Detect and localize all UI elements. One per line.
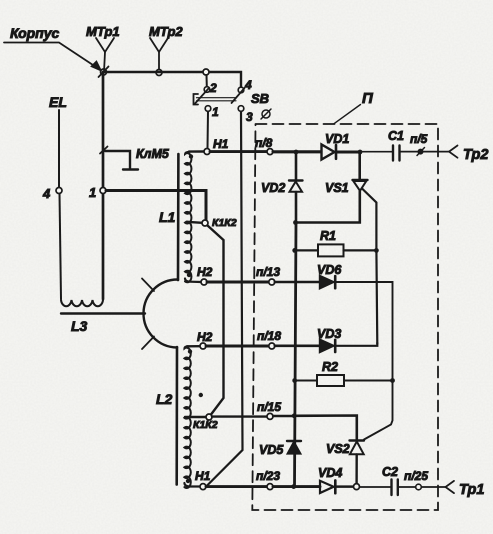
inductor L1 winding — [185, 152, 191, 283]
junction dot — [294, 150, 299, 155]
node Н2 L1 circle — [201, 279, 207, 285]
arc tick bottom — [142, 337, 154, 350]
wire to C1 — [360, 151, 392, 153]
VS1 gate wire — [362, 189, 376, 249]
node п/18 circle — [269, 343, 275, 349]
capacitor C2 — [392, 480, 398, 496]
node К1К2 L2 circle — [206, 414, 212, 420]
wire Н1 L2 row (п/23) — [206, 485, 267, 488]
wire EL — [58, 110, 60, 188]
SB contact 4 — [238, 87, 244, 93]
node Н1 L1 circle — [204, 149, 210, 155]
svg-text:VD5: VD5 — [259, 443, 284, 457]
L2 tap wire — [185, 416, 206, 418]
wire node1 to L1 tap — [106, 191, 206, 220]
svg-text:SB: SB — [251, 91, 269, 106]
svg-text:1: 1 — [89, 185, 96, 200]
diode VD3 — [320, 340, 334, 353]
thyristor VS2 — [350, 439, 365, 441]
wire SB1 to H1 — [207, 112, 210, 149]
svg-text:п/25: п/25 — [404, 469, 428, 483]
wire п/8 to VD1 — [273, 150, 321, 153]
svg-text:1: 1 — [212, 105, 219, 119]
svg-text:VD1: VD1 — [325, 132, 349, 146]
node Н1 L2 circle — [200, 484, 206, 490]
thyristor VS1 — [358, 154, 361, 179]
svg-text:п/5: п/5 — [410, 132, 428, 146]
wire Н2 L2 row (п/18) — [206, 345, 269, 348]
node п/25 circle — [416, 484, 422, 490]
contact КлМ5 branch — [105, 151, 138, 170]
polarity dot L2 top — [188, 349, 192, 353]
SB link bars — [197, 98, 237, 101]
node circle after VD4 — [354, 484, 360, 490]
wire п/13 to VD6 — [275, 281, 320, 284]
svg-text:R1: R1 — [320, 229, 336, 243]
svg-text:4: 4 — [244, 78, 252, 92]
svg-text:Н2: Н2 — [197, 265, 213, 279]
VS2 gate wire — [364, 381, 393, 440]
capacitor C1 — [393, 146, 400, 161]
node п/5 — [418, 149, 423, 154]
wire Н1 row — [210, 150, 267, 153]
svg-text:Тр1: Тр1 — [459, 482, 484, 498]
МТр1 arrow — [96, 38, 114, 52]
junction dot п/15 — [292, 413, 297, 418]
resistor R1 — [295, 249, 319, 251]
node 4 circle — [56, 188, 62, 194]
L2 bottom lead — [184, 483, 200, 487]
svg-text:п/13: п/13 — [256, 265, 280, 279]
svg-text:L2: L2 — [156, 391, 173, 407]
wire to C2 — [360, 486, 392, 488]
svg-text:VD6: VD6 — [317, 263, 342, 277]
svg-text:п/23: п/23 — [256, 469, 280, 483]
svg-text:Корпус: Корпус — [10, 25, 60, 41]
terminal Тр1 arrow — [446, 481, 455, 493]
diode VD6 — [320, 276, 334, 289]
arc tick top — [142, 279, 154, 292]
svg-text:EL: EL — [49, 94, 67, 110]
wire R1 right down — [375, 250, 378, 343]
dashed box П — [252, 124, 438, 510]
L1 bottom lead — [185, 279, 201, 283]
wire L3 to arc — [61, 312, 145, 314]
junction dot R1 left — [292, 248, 297, 253]
diode VD4 — [320, 481, 334, 493]
svg-text:К1К2: К1К2 — [212, 217, 237, 229]
junction dot — [358, 150, 363, 155]
wire VD4 to VS2 node — [335, 485, 353, 488]
wire п/23 to VD4 — [273, 485, 320, 488]
node МТр2 circle — [156, 70, 162, 76]
terminal Тр2 arrow — [449, 146, 458, 158]
svg-text:К1К2: К1К2 — [193, 419, 218, 431]
diode VD2 — [295, 154, 298, 179]
junction dot R2 left — [292, 378, 297, 383]
inductor L2 core — [175, 347, 178, 485]
node п/15 circle — [267, 413, 273, 419]
wire bus vertical — [295, 223, 297, 487]
contact КлМ5 slash — [100, 147, 108, 154]
SB armature right — [232, 88, 245, 103]
polarity dot L2 middle — [199, 393, 203, 397]
wire C2 to Тр1 — [398, 486, 446, 488]
node п/13 circle — [269, 279, 275, 285]
Корпус callout arrow — [4, 43, 96, 68]
svg-text:2: 2 — [209, 81, 217, 95]
inductor L1 core — [177, 154, 180, 280]
resistor R2 — [295, 380, 317, 382]
L1 top lead — [189, 150, 204, 153]
svg-text:VD3: VD3 — [317, 327, 341, 341]
svg-text:КлМ5: КлМ5 — [136, 147, 170, 161]
node К1К2 L1 circle — [202, 220, 208, 226]
svg-text:C2: C2 — [382, 465, 398, 479]
svg-text:Тр2: Тр2 — [463, 147, 488, 163]
wire К1К2 L2 row (п/15) — [212, 415, 267, 417]
inductor L2 winding — [184, 346, 190, 488]
wire EL lower — [60, 194, 62, 300]
SB actuator bracket — [194, 94, 199, 105]
L2 top lead — [187, 345, 200, 347]
node SB top circle — [203, 69, 209, 75]
МТр2 arrow — [150, 38, 168, 52]
inductor L3 — [61, 300, 103, 306]
svg-text:VS1: VS1 — [325, 181, 349, 195]
SB contact 2 — [204, 87, 210, 93]
svg-text:R2: R2 — [322, 360, 338, 374]
wire left vertical from chassis — [102, 72, 105, 188]
switch SB — [206, 75, 208, 87]
wire п/15 to VS2 — [273, 415, 294, 417]
svg-text:VD4: VD4 — [318, 466, 342, 480]
wire К1К2 link — [208, 226, 224, 415]
svg-text:3: 3 — [246, 110, 253, 124]
junction dot — [293, 220, 298, 225]
junction dot R1 right — [374, 248, 379, 253]
svg-text:П: П — [362, 90, 374, 107]
wire C1 to Тр2 — [400, 151, 450, 153]
svg-text:МТр1: МТр1 — [86, 24, 120, 39]
polarity dot L2 bottom — [186, 479, 190, 483]
П callout — [334, 105, 361, 124]
SB armature left — [195, 89, 209, 104]
L1 tap wire — [187, 222, 203, 223]
svg-text:п/15: п/15 — [257, 400, 281, 414]
wire SB3 down — [206, 112, 243, 487]
SB contact 1 — [205, 106, 211, 112]
wire VD1 to VS1 node — [336, 151, 360, 154]
svg-text:п/8: п/8 — [255, 136, 273, 150]
svg-text:VS2: VS2 — [326, 442, 350, 456]
svg-text:4: 4 — [42, 186, 51, 201]
junction dot п/23 — [291, 484, 296, 489]
svg-text:L3: L3 — [71, 318, 88, 334]
node 1 circle — [100, 188, 106, 194]
node Н2 L2 circle — [200, 343, 206, 349]
svg-text:п/18: п/18 — [257, 329, 281, 343]
wire п/18 to VD3 — [275, 344, 320, 347]
SB contact 3 — [238, 106, 244, 112]
polarity dot L1 top — [189, 154, 193, 158]
svg-text:Н1: Н1 — [213, 137, 229, 151]
node п/23 circle — [267, 484, 273, 490]
chassis junction circle — [101, 69, 107, 75]
polarity dot L1 bottom — [187, 273, 191, 277]
coupling arc — [144, 279, 178, 347]
chassis junction slash — [99, 67, 109, 78]
svg-text:Н2: Н2 — [197, 330, 213, 344]
wire Н2 row (п/13) — [207, 281, 269, 284]
wire VD6 right — [335, 282, 392, 378]
svg-text:МТр2: МТр2 — [149, 24, 183, 39]
wire VD3 right — [335, 343, 377, 346]
svg-text:C1: C1 — [388, 129, 404, 143]
connector symbol circle-slash — [262, 110, 270, 118]
diode VD1 — [322, 145, 335, 160]
svg-text:Н1: Н1 — [195, 469, 211, 483]
svg-text:VD2: VD2 — [261, 181, 285, 195]
wire top bus — [103, 71, 203, 73]
junction dot R2 right — [390, 378, 395, 383]
diode VD5 — [287, 440, 301, 442]
svg-text:L1: L1 — [159, 209, 176, 225]
node п/8 circle — [267, 149, 273, 155]
